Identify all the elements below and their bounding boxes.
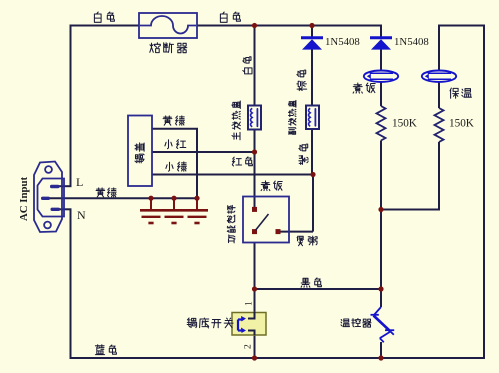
wire resistor1 down <box>380 141 382 290</box>
fuse F1 element <box>140 16 196 34</box>
function selector box <box>243 197 289 243</box>
label pot lid vertical (guogai) <box>135 143 144 163</box>
wire bottom (blue) <box>70 357 486 359</box>
AC inlet <box>34 162 64 233</box>
heater main (zhufareban) <box>248 106 261 130</box>
wire black <box>255 288 382 290</box>
resistor R1 150K <box>377 106 386 141</box>
svg-text:AC Input: AC Input <box>18 176 30 221</box>
label fuse (rongduanqi) <box>150 43 161 53</box>
svg-text:L: L <box>76 175 83 189</box>
label black (heise) <box>301 278 310 287</box>
wire selector to switch <box>254 243 256 314</box>
wire thermostat bottom lead <box>380 342 382 359</box>
wire keep-warm column <box>438 26 440 72</box>
label red (hongse) <box>232 157 241 166</box>
label brown vertical (zongse) <box>297 70 307 91</box>
diode D2 1N5408 <box>370 36 392 39</box>
wire L terminal <box>56 185 72 187</box>
wire thermostat top lead <box>380 289 382 307</box>
wire top keep-warm branch <box>438 25 485 27</box>
ground symbols triple earth <box>150 198 152 209</box>
wire lamp1 to resistor1 <box>380 81 382 106</box>
wire small-green <box>152 174 313 176</box>
fuse F1 box <box>139 13 197 38</box>
wire diode1 column upper <box>311 26 313 39</box>
label cook lamp <box>353 83 362 93</box>
wire top right of fuse <box>197 25 382 27</box>
wire diode1 to aux heater <box>311 48 313 107</box>
pot-bottom switch bottom contact <box>248 331 255 336</box>
wire switch to bottom <box>254 334 256 359</box>
label yellow-green wire1 <box>163 116 172 125</box>
wire top left (white) <box>71 25 140 27</box>
lamp keep-warm (baowen) <box>422 71 456 82</box>
svg-text:1: 1 <box>245 301 255 306</box>
selector contact cook <box>252 207 257 212</box>
label purple vertical (zise) <box>299 144 308 164</box>
wire small-red <box>152 151 255 153</box>
wire resistor2 down <box>438 142 440 211</box>
selector contact porridge <box>276 229 281 234</box>
label function select vertical <box>227 205 235 243</box>
wire N terminal <box>56 208 72 210</box>
thermostat symbol <box>371 307 395 342</box>
wire resistor join <box>381 209 439 211</box>
svg-text:1N5408: 1N5408 <box>325 36 360 48</box>
label thermostat (wenkongqi) <box>341 319 350 327</box>
label pot-bottom switch <box>187 318 196 328</box>
wire left bus upper <box>70 25 72 187</box>
svg-text:150K: 150K <box>392 118 417 130</box>
label main heater vertical <box>232 101 240 140</box>
label small-red <box>165 140 172 149</box>
label aux heater vertical <box>288 100 296 134</box>
label cook (zhufan) selector <box>261 181 270 191</box>
diode D1 1N5408 <box>301 36 323 39</box>
wire main-heater column upper <box>254 26 256 107</box>
junction dots <box>252 23 257 28</box>
svg-text:150K: 150K <box>449 118 474 130</box>
label white (baise) top-right <box>220 12 227 22</box>
pot-bottom switch actuator <box>237 320 239 331</box>
wire to porridge contact <box>312 175 314 232</box>
pot-bottom switch box <box>232 313 266 336</box>
heater aux (fufareban) <box>306 106 319 130</box>
wire diode2 column <box>380 26 382 39</box>
wire left bus lower <box>70 209 72 359</box>
label blue (lanse) <box>95 345 104 355</box>
svg-text:1N5408: 1N5408 <box>394 36 429 48</box>
resistor R2 150K <box>435 108 444 142</box>
wire main-heater column lower <box>254 129 256 210</box>
label small-green <box>166 162 173 171</box>
wire earth from connector <box>48 197 197 199</box>
label keep-warm lamp <box>450 88 459 98</box>
pot lid box (guogai) <box>128 116 152 187</box>
svg-text:2: 2 <box>244 344 254 349</box>
label white (baise) top-left <box>94 12 101 22</box>
label white vertical <box>243 57 252 74</box>
pot-bottom switch top contact <box>248 312 255 319</box>
svg-text:N: N <box>77 208 86 222</box>
wire yellow-green from lid <box>152 128 198 130</box>
selector blade <box>256 214 269 230</box>
label yellow-green earth <box>96 188 105 197</box>
wire down to earth <box>196 129 198 199</box>
wire aux heater down <box>311 129 313 176</box>
lamp cook (zhufan) <box>364 71 398 82</box>
selector contact common <box>252 229 257 234</box>
wire right bus <box>483 26 485 360</box>
label porridge (baozhou) <box>297 236 304 246</box>
